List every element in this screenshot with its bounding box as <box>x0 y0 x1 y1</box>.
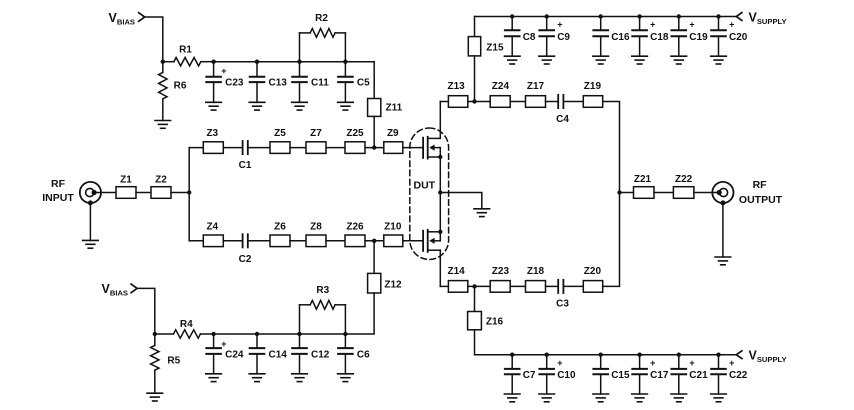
junction Q2 source <box>438 230 442 234</box>
wire Z6 to Z8 <box>290 240 306 242</box>
capacitor C16 <box>593 17 630 57</box>
svg-text:Z11: Z11 <box>386 102 403 113</box>
svg-text:C8: C8 <box>523 32 536 43</box>
transistor Q2 lower FET of DUT <box>423 230 440 252</box>
svg-text:Z1: Z1 <box>120 174 132 185</box>
junction bottom supply bus at C21 <box>677 353 681 357</box>
ground below C15 <box>593 394 609 402</box>
svg-text:Z10: Z10 <box>384 222 402 233</box>
net label RF INPUT <box>42 178 74 204</box>
impedance Z26 <box>345 222 365 247</box>
impedance Z4 <box>203 222 223 247</box>
svg-text:C5: C5 <box>357 78 370 89</box>
capacitor C9 <box>539 17 570 57</box>
wire Z22 to output connector <box>694 192 719 194</box>
impedance Z19 <box>583 81 602 107</box>
wire C2 to Z6 <box>248 240 270 242</box>
wire output tap to Z21 <box>620 192 634 194</box>
wire top supply bus <box>475 16 737 18</box>
svg-text:Z26: Z26 <box>346 222 364 233</box>
impedance Z20 <box>583 266 602 292</box>
capacitor C18 <box>632 17 669 57</box>
svg-text:Z5: Z5 <box>274 128 286 139</box>
ground below C9 <box>539 56 555 64</box>
impedance Z14 <box>447 266 467 292</box>
svg-text:RF: RF <box>51 178 66 190</box>
net label RF OUTPUT <box>739 179 783 206</box>
wire Z8 to Z26 <box>326 240 345 242</box>
junction top bias bus <box>343 60 347 64</box>
DUT outline (dashed) <box>410 128 449 260</box>
junction bottom bias bus <box>297 332 301 336</box>
junction VBIAS/R4/R5 <box>153 332 157 336</box>
svg-text:C21: C21 <box>689 370 708 381</box>
svg-text:RF: RF <box>753 179 768 191</box>
net label VBIAS (bottom) <box>102 282 129 298</box>
svg-text:C1: C1 <box>239 160 252 171</box>
impedance Z13 <box>447 81 467 107</box>
ground below C20 <box>711 56 727 64</box>
svg-text:Z16: Z16 <box>486 317 504 328</box>
junction top supply bus at C18 <box>637 14 641 18</box>
wire split node to upper/lower branches <box>188 148 190 241</box>
wire Z13 to supply node <box>468 101 490 103</box>
wire Z5 to Z7 <box>290 147 306 149</box>
capacitor C3 <box>556 280 569 310</box>
wire C1 to Z5 <box>248 147 270 149</box>
svg-text:R6: R6 <box>174 80 187 91</box>
junction top bias bus <box>211 60 215 64</box>
resistor R1 <box>163 44 214 66</box>
impedance Z5 <box>270 128 290 153</box>
impedance Z8 <box>306 222 326 247</box>
svg-text:C11: C11 <box>311 78 329 89</box>
ground below C18 <box>632 56 648 64</box>
impedance Z1 <box>116 174 136 198</box>
ground below R5 <box>147 393 163 401</box>
capacitor C24 <box>206 334 244 374</box>
wire Z23 to Z18 <box>510 285 525 287</box>
wire Z1 to Z2 <box>136 192 151 194</box>
ground below C24 <box>206 374 222 382</box>
wire VBIAS top to R1/R6 node <box>145 17 163 62</box>
net label VSUPPLY (bottom) <box>749 349 787 365</box>
impedance Z22 <box>673 174 694 198</box>
wire Z19 to right vertical <box>603 102 620 193</box>
ground below RF OUTPUT <box>715 257 731 265</box>
wire VBIAS bottom to R4/R5 node <box>137 288 155 334</box>
capacitor C17 <box>632 355 669 394</box>
svg-text:+: + <box>650 358 655 368</box>
impedance Z18 <box>526 266 546 292</box>
wire Z18 to C3 <box>546 285 559 287</box>
ground below C22 <box>711 394 727 402</box>
capacitor C4 <box>556 95 569 125</box>
junction DUT common source node <box>438 190 442 194</box>
junction input split node <box>187 190 191 194</box>
junction top supply bus at C9 <box>545 14 549 18</box>
svg-text:C14: C14 <box>269 350 288 361</box>
resistor R2 <box>300 13 346 62</box>
svg-text:C13: C13 <box>269 78 288 89</box>
impedance Z9 <box>384 128 403 153</box>
ground below C5 <box>338 102 354 110</box>
junction output connector shield <box>720 200 725 205</box>
junction top bias bus <box>297 60 301 64</box>
junction bottom supply bus at C17 <box>637 353 641 357</box>
ground below C13 <box>249 102 265 110</box>
impedance Z6 <box>270 222 290 247</box>
svg-text:Z6: Z6 <box>274 222 286 233</box>
wire DUT common trunk <box>439 102 441 287</box>
svg-text:Z25: Z25 <box>346 128 364 139</box>
svg-text:+: + <box>729 20 734 30</box>
junction Z15 tap top row <box>472 99 476 103</box>
wire DUT lower drain to Z14 <box>440 285 448 287</box>
junction VBIAS/R1/R6 <box>161 60 165 64</box>
svg-text:C6: C6 <box>357 350 370 361</box>
ground below C7 <box>504 394 520 402</box>
junction bottom supply bus at C7 <box>510 353 514 357</box>
impedance Z17 <box>526 81 546 107</box>
junction top bias bus <box>255 60 259 64</box>
wire Z7 to Z25 <box>326 147 345 149</box>
wire Z26 to Z10 <box>365 240 384 242</box>
capacitor C12 <box>292 334 330 374</box>
svg-text:R3: R3 <box>316 285 329 296</box>
capacitor C21 <box>672 355 709 394</box>
capacitor C5 <box>338 62 370 103</box>
wire Z24 to Z17 <box>510 101 525 103</box>
svg-text:+: + <box>650 20 655 30</box>
junction top supply bus at C8 <box>510 14 514 18</box>
wire Z2 to split node <box>171 192 189 194</box>
wire C4 to Z19 <box>563 101 583 103</box>
capacitor C23 <box>206 62 244 103</box>
svg-text:Z24: Z24 <box>492 81 510 92</box>
svg-text:+: + <box>689 20 694 30</box>
ground below C6 <box>338 374 354 382</box>
ground DUT source <box>474 209 490 217</box>
junction bottom supply bus at C10 <box>545 353 549 357</box>
impedance Z21 <box>634 174 655 198</box>
wire Z4 to C2 <box>223 240 242 242</box>
capacitor C20 <box>711 17 748 57</box>
svg-text:+: + <box>221 66 226 76</box>
junction Z16 tap bottom row <box>472 284 476 288</box>
svg-text:+: + <box>221 339 226 349</box>
svg-text:C24: C24 <box>225 350 244 361</box>
svg-text:Z9: Z9 <box>387 128 399 139</box>
junction top supply bus at C16 <box>599 14 603 18</box>
impedance Z24 <box>490 81 510 107</box>
wire Z20 to right vertical <box>603 193 620 287</box>
capacitor C7 <box>505 355 536 394</box>
capacitor C19 <box>672 17 709 57</box>
junction Z11 tap upper row <box>372 145 376 149</box>
off-page chevron VSUPPLY top <box>736 13 742 21</box>
impedance Z7 <box>306 128 326 153</box>
impedance Z16 <box>468 286 513 354</box>
ground below C16 <box>593 56 609 64</box>
svg-text:Z3: Z3 <box>206 128 218 139</box>
svg-text:R4: R4 <box>180 319 193 330</box>
wire C3 to Z20 <box>563 285 583 287</box>
svg-text:Z18: Z18 <box>527 266 545 277</box>
junction top supply bus at C19 <box>677 14 681 18</box>
junction input connector shield <box>88 200 93 205</box>
wire Z21 to Z22 <box>654 192 673 194</box>
svg-text:+: + <box>689 358 694 368</box>
impedance Z23 <box>490 266 510 292</box>
wire Z10 to DUT lower gate <box>403 240 423 242</box>
svg-text:C19: C19 <box>689 32 708 43</box>
junction bottom bias bus <box>343 332 347 336</box>
capacitor C13 <box>250 62 288 103</box>
junction Q1 source <box>438 155 442 159</box>
svg-text:INPUT: INPUT <box>42 192 74 204</box>
junction top supply bus at C20 <box>716 14 720 18</box>
svg-text:R2: R2 <box>315 13 328 24</box>
svg-text:C10: C10 <box>557 370 576 381</box>
junction bottom supply bus at C22 <box>716 353 720 357</box>
svg-text:C20: C20 <box>729 32 748 43</box>
svg-text:C23: C23 <box>225 78 244 89</box>
svg-text:Z14: Z14 <box>447 266 465 277</box>
wire Z17 to C4 <box>546 101 559 103</box>
svg-text:+: + <box>557 20 562 30</box>
wire split to Z4 <box>189 240 203 242</box>
svg-text:C4: C4 <box>556 114 569 125</box>
junction output tap <box>617 190 621 194</box>
off-page chevron VBIAS bottom <box>131 284 137 293</box>
svg-text:Z2: Z2 <box>155 174 167 185</box>
svg-text:C7: C7 <box>523 370 536 381</box>
svg-text:OUTPUT: OUTPUT <box>739 194 783 206</box>
wire input shield to ground <box>89 203 91 241</box>
svg-text:R1: R1 <box>179 44 192 55</box>
impedance Z10 <box>384 222 403 247</box>
wire top bias bus <box>214 61 375 63</box>
ground below C12 <box>292 374 308 382</box>
net label VBIAS (top) <box>109 11 136 27</box>
svg-text:C9: C9 <box>557 32 570 43</box>
capacitor C10 <box>539 355 576 394</box>
impedance Z25 <box>345 128 365 153</box>
svg-text:C15: C15 <box>611 370 630 381</box>
resistor R5 <box>151 334 181 393</box>
ground below RF INPUT <box>83 240 99 248</box>
ground below C14 <box>249 374 265 382</box>
ground below C11 <box>292 102 308 110</box>
wire output shield to ground <box>722 203 724 257</box>
svg-text:Z21: Z21 <box>634 174 652 185</box>
junction Z12 tap lower row <box>372 239 376 243</box>
off-page chevron VSUPPLY bottom <box>736 351 742 359</box>
svg-text:C3: C3 <box>556 299 569 310</box>
ground below C10 <box>539 394 555 402</box>
capacitor C2 <box>239 234 252 265</box>
capacitor C22 <box>711 355 748 394</box>
connector J2 RF OUTPUT <box>712 182 733 203</box>
capacitor C8 <box>505 17 536 57</box>
svg-text:C22: C22 <box>729 370 748 381</box>
transistor Q1 upper FET of DUT <box>423 137 440 159</box>
ground below C19 <box>671 56 687 64</box>
svg-text:R5: R5 <box>167 355 180 366</box>
svg-text:Z4: Z4 <box>206 222 218 233</box>
wire bottom bias bus <box>214 333 346 335</box>
wire DUT drain to Z13 <box>440 101 448 103</box>
svg-text:Z20: Z20 <box>584 266 602 277</box>
svg-text:Z23: Z23 <box>492 266 510 277</box>
wire bottom supply bus <box>512 354 736 356</box>
capacitor C15 <box>593 355 630 394</box>
wire Z9 to DUT upper gate <box>403 147 423 149</box>
svg-text:Z15: Z15 <box>486 43 504 54</box>
resistor R4 <box>155 319 214 338</box>
resistor R3 <box>300 285 346 334</box>
impedance Z3 <box>203 128 223 153</box>
svg-text:+: + <box>557 358 562 368</box>
impedance Z2 <box>151 174 171 198</box>
svg-text:C12: C12 <box>311 350 330 361</box>
svg-text:Z7: Z7 <box>310 128 322 139</box>
impedance Z12 <box>345 241 402 334</box>
net label VSUPPLY (top) <box>749 10 787 26</box>
junction bottom supply bus at C15 <box>599 353 603 357</box>
wire input to Z1 <box>94 192 116 194</box>
svg-text:C17: C17 <box>650 370 669 381</box>
wire DUT source to ground <box>440 193 482 209</box>
svg-text:C18: C18 <box>650 32 669 43</box>
capacitor C6 <box>338 334 370 374</box>
wire Z25 to Z9 <box>365 147 384 149</box>
connector J1 RF INPUT <box>80 182 101 203</box>
capacitor C14 <box>250 334 288 374</box>
capacitor C11 <box>292 62 329 103</box>
svg-text:Z22: Z22 <box>675 174 693 185</box>
ground below C23 <box>206 102 222 110</box>
svg-text:+: + <box>729 358 734 368</box>
off-page chevron VBIAS top <box>139 13 145 22</box>
resistor R6 <box>159 62 187 121</box>
wire Z3 to C1 <box>223 147 242 149</box>
ground below R6 <box>155 121 171 129</box>
svg-text:Z8: Z8 <box>310 222 322 233</box>
impedance Z15 <box>468 17 504 102</box>
ground below C8 <box>504 56 520 64</box>
junction bottom bias bus <box>255 332 259 336</box>
wire Z14 to supply node <box>468 285 490 287</box>
ground below C17 <box>632 394 648 402</box>
capacitor C1 <box>239 141 252 171</box>
wire split to Z3 <box>189 147 203 149</box>
impedance Z11 <box>368 62 403 148</box>
svg-text:C2: C2 <box>239 254 252 265</box>
ground below C21 <box>671 394 687 402</box>
svg-text:Z17: Z17 <box>527 81 545 92</box>
svg-text:C16: C16 <box>611 32 630 43</box>
svg-text:DUT: DUT <box>414 179 436 191</box>
svg-text:Z19: Z19 <box>584 81 602 92</box>
junction bottom bias bus <box>211 332 215 336</box>
svg-text:Z12: Z12 <box>384 279 402 290</box>
svg-text:Z13: Z13 <box>447 81 465 92</box>
